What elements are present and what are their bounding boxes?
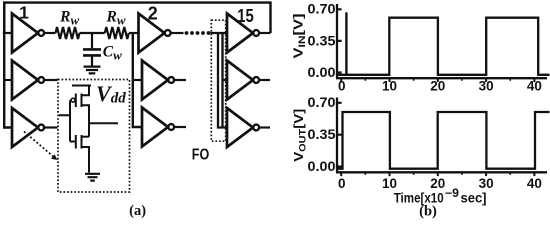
y ticks VIN [337, 9, 342, 72]
svg-text:0: 0 [338, 79, 346, 94]
node: ellipsis dots (omitted stages) [185, 31, 211, 35]
svg-text:0: 0 [338, 176, 346, 191]
axis: VOUT y-axis [336, 98, 338, 173]
wire: output node [89, 105, 118, 136]
transistor M_P (PMOS) [71, 86, 89, 113]
x tick labels VOUT [338, 176, 542, 191]
svg-text:0.00: 0.00 [308, 159, 336, 174]
x ticks VOUT [341, 172, 534, 176]
waveform VIN initial spike [345, 12, 347, 75]
svg-text:sec]: sec] [461, 190, 487, 206]
wire: mid load inverter input stub [133, 79, 142, 81]
svg-text:Rw: Rw [59, 8, 79, 27]
wire: stage-15 fan-out drop A [218, 33, 227, 128]
capacitor Cw bottom lead [91, 55, 93, 65]
resistor Rw (first) [56, 27, 80, 39]
inverter R3b (fan-out load) [227, 108, 259, 147]
svg-text:2: 2 [148, 4, 158, 24]
inverter U15 [227, 14, 259, 53]
axis: VOUT x-axis [336, 171, 547, 173]
svg-text:20: 20 [430, 79, 445, 94]
wire: M2 output stub [174, 79, 186, 81]
wire: L2 output stub [44, 79, 57, 81]
dotted arrow from inverter L3 to CMOS inset [24, 132, 55, 159]
wire: U2 output [171, 32, 184, 34]
wire: M3 output stub [174, 126, 186, 128]
svg-text:0.00: 0.00 [308, 65, 336, 80]
svg-text:Rw: Rw [106, 8, 126, 27]
wire: stage-2 input bus [133, 33, 142, 127]
x tick labels VIN [338, 79, 542, 94]
svg-text:(a): (a) [129, 203, 146, 219]
transistor M_N (NMOS) [76, 135, 89, 173]
inverter U2 [139, 14, 171, 53]
svg-text:10: 10 [382, 176, 397, 191]
wire: R1 to R2 with node at Cw tap [80, 32, 105, 34]
wire: feedback top rail from inverter U15 output to ring input [4, 3, 270, 33]
wire: inverter U1 input stub [3, 32, 13, 34]
FO dotted box [211, 20, 225, 141]
inverter L3 (fan-out load) [12, 108, 44, 147]
wire: left input bus [4, 3, 12, 128]
svg-text:40: 40 [527, 176, 542, 191]
svg-text:10: 10 [382, 79, 397, 94]
ground (below Cw) [84, 67, 101, 74]
y ticks VOUT [337, 103, 342, 167]
svg-text:0.70: 0.70 [308, 95, 336, 110]
x ticks VIN [341, 78, 534, 82]
inverter M2 (fan-out load) [142, 61, 174, 100]
svg-text:VOUT[V]: VOUT[V] [291, 109, 309, 162]
axis: VIN y-axis [336, 4, 338, 78]
svg-text:0.70: 0.70 [308, 2, 336, 17]
wire: right mid load input stub [223, 79, 228, 81]
wire: L3 output stub [44, 126, 57, 128]
svg-text:(b): (b) [419, 204, 437, 220]
inverter L2 (fan-out load) [12, 61, 44, 100]
inverter U1 [12, 14, 44, 53]
svg-text:30: 30 [479, 79, 494, 94]
svg-text:−9: −9 [445, 188, 459, 200]
svg-text:20: 20 [430, 176, 445, 191]
wire: stage-15 fan-out drop B [221, 33, 223, 128]
wire: R2 to inverter U2 input [129, 32, 139, 34]
svg-text:VIN[V]: VIN[V] [291, 14, 309, 59]
wire: U1 output to resistor R1 [44, 32, 55, 34]
capacitor Cw top lead [91, 33, 93, 48]
wire: gate bus + input [59, 100, 76, 141]
wire: inverter L2 input stub [4, 79, 12, 81]
wire: to inverter U15 input [211, 32, 228, 34]
svg-text:Cw: Cw [103, 44, 122, 63]
waveform VIN [338, 18, 550, 75]
capacitor Cw plates [83, 49, 101, 55]
svg-text:FO: FO [192, 146, 210, 163]
svg-text:30: 30 [479, 176, 494, 191]
svg-text:0.35: 0.35 [308, 33, 337, 48]
axis: VIN x-axis [336, 77, 547, 79]
inverter M3 (fan-out load) [142, 108, 174, 147]
ground (CMOS inset) [85, 174, 100, 181]
svg-text:15: 15 [237, 6, 254, 26]
wire: U15 output stub [259, 32, 270, 34]
wire: R3b output stub [259, 126, 270, 128]
resistor Rw (second) [105, 27, 129, 39]
svg-text:1: 1 [19, 3, 29, 23]
svg-text:40: 40 [527, 79, 542, 94]
inverter R2b (fan-out load) [227, 61, 259, 100]
dotted box: CMOS inverter inset [58, 80, 130, 193]
svg-text:0.35: 0.35 [308, 127, 337, 142]
Vdd rail [72, 85, 91, 87]
wire: R2b output stub [259, 79, 270, 81]
waveform VOUT [338, 112, 550, 169]
